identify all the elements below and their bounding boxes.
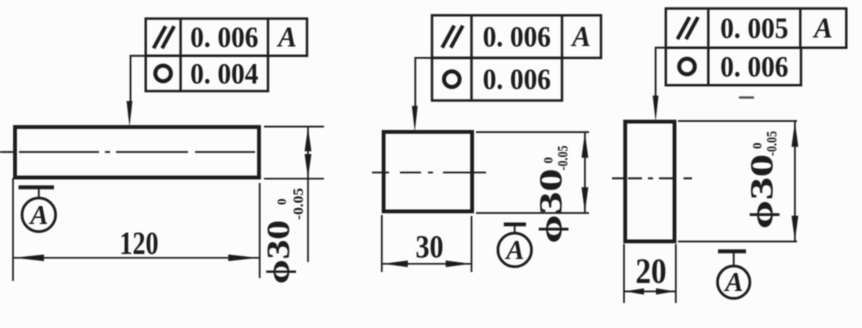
30 dimension extension line left: [381, 215, 383, 272]
30 left arrowhead: [383, 261, 408, 268]
datum A circle: [718, 266, 750, 298]
svg-text:-0.05: -0.05: [556, 146, 572, 171]
svg-text:0. 006: 0. 006: [720, 51, 788, 84]
phi30 top extension line (middle view): [476, 131, 589, 133]
svg-text:0. 006: 0. 006: [483, 21, 551, 54]
diameter dimension text phi30 with tolerance (rotated): [261, 188, 307, 284]
feature control frame row 1 (parallelism): [146, 19, 307, 56]
leader line from frame to part: [415, 58, 432, 117]
right view: block 20 long, outline: [625, 122, 674, 242]
120 dimension extension line right: [259, 183, 261, 278]
phi30 up arrowhead (right view): [792, 122, 799, 147]
phi30 top extension line (left view): [264, 126, 324, 128]
leader arrowhead: [653, 96, 659, 122]
datum A circle: [498, 233, 532, 267]
feature control frame row 2 (circularity): [146, 56, 268, 91]
svg-text:0: 0: [274, 199, 289, 206]
leader arrowhead: [412, 106, 418, 132]
20 dimension extension line left: [623, 244, 625, 303]
parallelism symbol: [154, 26, 166, 48]
30 right arrowhead: [446, 261, 471, 268]
phi30 down arrowhead (middle view): [582, 187, 589, 212]
120 left arrowhead: [14, 255, 44, 262]
svg-text:30: 30: [416, 230, 444, 266]
phi30 up arrowhead (middle view): [582, 133, 589, 158]
feature control frame row 2 (circularity): [666, 48, 801, 85]
svg-text:0. 004: 0. 004: [190, 57, 258, 90]
svg-text:A: A: [812, 14, 833, 45]
diameter dimension text phi30 with tolerance (rotated): [745, 131, 781, 229]
svg-text:-0.05: -0.05: [765, 131, 781, 156]
svg-text:0. 006: 0. 006: [483, 63, 551, 96]
phi30 down arrowhead (right view): [792, 216, 799, 241]
svg-text:A: A: [723, 267, 743, 297]
circularity symbol: [155, 66, 171, 82]
diameter dimension text phi30 with tolerance (rotated): [534, 146, 572, 244]
phi30 bottom extension line (middle view): [476, 212, 589, 214]
20 left arrowhead: [625, 288, 644, 294]
left view: shaft 120 long, outline: [15, 127, 259, 178]
datum A stem: [38, 187, 40, 198]
feature control frame row 2 (circularity): [432, 58, 562, 101]
left view centerline: [0, 151, 266, 153]
svg-text:0: 0: [750, 143, 765, 150]
leader line from frame to part: [131, 56, 146, 111]
svg-text:ϕ30: ϕ30: [261, 220, 297, 284]
svg-text:0: 0: [541, 157, 556, 164]
phi30 dimension line (middle view): [584, 132, 586, 213]
20 dimension line: [624, 290, 676, 292]
120 dimension extension line left: [12, 178, 14, 281]
circularity symbol: [444, 71, 460, 87]
120 right arrowhead: [228, 255, 258, 262]
phi30 bottom extension line (left view): [264, 178, 324, 180]
phi30 dimension line (left view): [307, 127, 309, 262]
svg-text:A: A: [28, 200, 48, 230]
svg-text:ϕ30: ϕ30: [534, 169, 570, 244]
datum A bar: [19, 185, 55, 189]
feature control frame row 1 (parallelism): [666, 9, 847, 48]
phi30 dimension line (right view): [794, 121, 796, 242]
datum A circle: [22, 198, 56, 232]
svg-text:-0.05: -0.05: [291, 188, 307, 220]
stray scan mark below right frame: [739, 96, 754, 98]
parallelism symbol: [442, 26, 454, 48]
datum A stem: [733, 251, 735, 266]
svg-text:A: A: [570, 22, 591, 53]
leader line from frame to part: [656, 48, 666, 107]
svg-text:0. 006: 0. 006: [190, 21, 258, 54]
leader arrowhead: [127, 101, 133, 127]
phi30 bottom extension line (right view): [678, 241, 797, 243]
parallelism symbol: [678, 17, 690, 39]
right view centerline: [612, 177, 692, 179]
phi30 top extension line (right view): [678, 120, 797, 122]
svg-text:0. 005: 0. 005: [720, 12, 788, 45]
20 dimension extension line right: [675, 244, 677, 303]
middle view centerline: [372, 172, 486, 174]
phi30 down arrowhead (left view): [305, 154, 312, 178]
datum A bar: [718, 249, 746, 253]
30 dimension line: [382, 263, 472, 265]
30 dimension extension line right: [471, 216, 473, 272]
svg-text:20: 20: [636, 251, 667, 291]
20 right arrowhead: [656, 288, 675, 294]
middle view: block 30 long, outline: [384, 132, 473, 212]
circularity symbol: [679, 59, 695, 75]
svg-text:A: A: [504, 235, 524, 265]
phi30 up arrowhead (left view): [305, 127, 312, 151]
svg-text:120: 120: [120, 226, 159, 262]
svg-text:ϕ30: ϕ30: [745, 154, 781, 229]
svg-text:A: A: [276, 23, 297, 54]
feature control frame row 1 (parallelism): [432, 15, 601, 58]
datum A stem: [514, 224, 516, 233]
datum A bar: [504, 222, 526, 226]
120 dimension line: [13, 257, 259, 259]
